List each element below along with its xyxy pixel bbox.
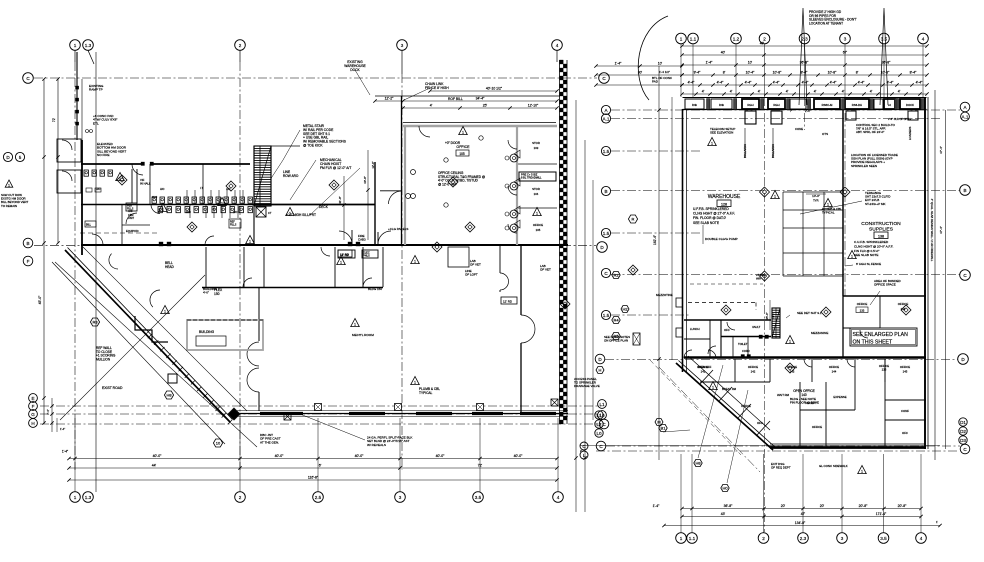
dim row top3 <box>680 61 928 67</box>
restroom stalls upper <box>187 190 243 204</box>
door arc mid <box>126 213 137 224</box>
svg-text:4': 4' <box>814 90 817 94</box>
note deck <box>286 205 329 217</box>
svg-text:4'-4": 4'-4" <box>887 81 895 85</box>
svg-text:PNLS: PNLS <box>363 254 370 258</box>
storefront frames <box>685 99 924 110</box>
svg-text:3.5: 3.5 <box>881 36 888 41</box>
svg-text:1: 1 <box>354 323 356 327</box>
south facade band <box>237 411 568 417</box>
svg-text:L: L <box>583 453 586 458</box>
dim rows top-left of right plan <box>594 62 683 87</box>
svg-text:SEE DET SHT 9.1: SEE DET SHT 9.1 <box>797 311 822 315</box>
svg-text:I.T: I.T <box>200 186 203 190</box>
svg-text:25': 25' <box>483 104 488 108</box>
restroom tiny labels <box>96 186 238 220</box>
svg-text:3: 3 <box>841 536 844 541</box>
svg-text:H2: H2 <box>622 307 628 312</box>
mezz vert dim <box>765 300 775 330</box>
lobby door arc <box>86 188 103 245</box>
svg-text:4'-4": 4'-4" <box>745 81 753 85</box>
per fills box <box>126 203 137 211</box>
note split face <box>300 414 413 447</box>
svg-text:ROW ARO: ROW ARO <box>283 174 299 178</box>
roof spike 2 <box>880 8 888 105</box>
svg-text:40'-0": 40'-0" <box>436 454 445 458</box>
svg-text:OFFICE: OFFICE <box>900 365 910 369</box>
svg-text:3: 3 <box>401 43 404 48</box>
svg-text:12'-10": 12'-10" <box>528 104 539 108</box>
grid C row <box>611 274 960 276</box>
restroom partition x203 <box>202 164 204 204</box>
note vert bar <box>260 433 281 444</box>
grid v 2 right plan <box>764 97 766 532</box>
outer diagonal sidewalk <box>52 262 225 444</box>
office west wall <box>375 96 402 245</box>
svg-text:BREAK RM: BREAK RM <box>722 387 737 391</box>
grid bubble 4 top <box>552 40 563 62</box>
svg-text:105: 105 <box>536 228 541 232</box>
svg-text:2.3: 2.3 <box>800 536 807 541</box>
svg-text:A.1: A.1 <box>962 114 969 119</box>
rp diag dash outer <box>650 360 760 472</box>
note exist road <box>102 386 123 390</box>
svg-text:H8: H8 <box>166 393 172 398</box>
supplies spec <box>854 240 893 257</box>
dim line vertical x44 <box>38 77 46 424</box>
svg-text:RGH: RGH <box>747 103 753 107</box>
svg-text:4: 4 <box>557 495 560 500</box>
svg-text:1: 1 <box>74 43 77 48</box>
restroom partition x132 <box>132 169 137 203</box>
warehouse label <box>708 194 741 207</box>
svg-text:1: 1 <box>221 202 223 206</box>
svg-text:4: 4 <box>920 536 923 541</box>
warning triangles right plan <box>708 138 867 474</box>
grid bubble stack right of left plan <box>598 400 609 429</box>
svg-text:RS6C-M: RS6C-M <box>822 103 833 107</box>
column footings below storefront <box>745 111 918 124</box>
svg-text:CONSTRUCTION: CONSTRUCTION <box>861 221 901 227</box>
svg-text:R4b: R4b <box>692 103 698 107</box>
svg-text:44': 44' <box>152 464 157 468</box>
svg-text:67': 67' <box>843 51 848 55</box>
svg-text:4': 4' <box>730 90 733 94</box>
svg-text:10'-8": 10'-8" <box>881 71 890 75</box>
grid A row <box>611 109 960 111</box>
office gray partition h2 <box>517 207 557 209</box>
north parapet mid <box>254 145 300 147</box>
note building sm <box>203 287 218 295</box>
svg-text:10': 10' <box>748 61 753 65</box>
svg-text:1'-4 1/2": 1'-4 1/2" <box>659 70 670 74</box>
ramp wall top-left <box>76 52 79 140</box>
svg-text:W/ REVEALS: W/ REVEALS <box>367 443 386 447</box>
upper office walls right <box>843 296 880 357</box>
svg-text:4'-0": 4'-0" <box>203 291 209 295</box>
svg-text:3.5: 3.5 <box>880 536 887 541</box>
svg-text:116'-8": 116'-8" <box>308 476 319 480</box>
door diamonds right plan <box>721 305 911 373</box>
svg-text:CT: CT <box>268 211 272 215</box>
svg-text:1.1: 1.1 <box>690 36 697 41</box>
svg-text:1.1: 1.1 <box>689 536 696 541</box>
mezzanine rack grid <box>783 192 843 276</box>
dim row top6 <box>680 90 928 96</box>
svg-text:8 BL TREADMILL: 8 BL TREADMILL <box>521 176 542 180</box>
svg-text:W/C: W/C <box>186 210 191 214</box>
rp bottom wall <box>770 444 926 448</box>
svg-text:FILLS: FILLS <box>230 224 237 227</box>
svg-text:DOCK: DOCK <box>906 103 914 107</box>
bo box <box>633 333 640 345</box>
svg-text:OFC: OFC <box>757 421 763 425</box>
cone2 <box>795 127 803 131</box>
speak leader <box>800 201 862 214</box>
svg-text:40'-0": 40'-0" <box>355 454 364 458</box>
svg-text:4'-4": 4'-4" <box>773 81 781 85</box>
bonded office south wall <box>843 295 926 297</box>
svg-text:HEAD: HEAD <box>165 265 175 269</box>
svg-text:20': 20' <box>820 504 825 508</box>
note bldg 150 <box>368 287 382 291</box>
svg-text:10'-4": 10'-4" <box>746 71 755 75</box>
leader lines left plan <box>270 70 430 215</box>
svg-text:LOCATION AT TENANT: LOCATION AT TENANT <box>809 21 843 25</box>
note mech chain <box>320 158 351 170</box>
svg-text:2: 2 <box>762 536 765 541</box>
svg-text:1.5: 1.5 <box>603 149 610 154</box>
grid row E dash <box>40 405 601 407</box>
svg-text:1'-4": 1'-4" <box>653 504 661 508</box>
svg-text:WAREHOUSE: WAREHOUSE <box>708 194 741 200</box>
svg-text:1: 1 <box>340 261 342 265</box>
svg-text:BUILDING: BUILDING <box>199 330 215 334</box>
dashed room line <box>80 229 160 233</box>
svg-text:OFFICE: OFFICE <box>741 404 751 408</box>
svg-text:CORR: CORR <box>742 349 750 353</box>
svg-text:OFFICE: OFFICE <box>748 365 758 369</box>
svg-text:R8: R8 <box>92 320 98 325</box>
svg-text:CLO: CLO <box>152 196 157 199</box>
svg-text:LOADERS: LOADERS <box>908 126 912 140</box>
mezz label <box>811 331 828 335</box>
svg-text:RECEPT: RECEPT <box>805 401 817 405</box>
svg-text:SPRINKLER SEEN: SPRINKLER SEEN <box>851 164 877 168</box>
restroom stalls lower <box>190 204 238 218</box>
svg-text:12'-2": 12'-2" <box>385 97 394 101</box>
warning triangles left plan <box>116 127 542 327</box>
office row labels <box>698 365 910 374</box>
svg-text:TYP.: TYP. <box>813 199 819 203</box>
svg-text:1: 1 <box>8 184 10 188</box>
svg-text:2.3: 2.3 <box>801 36 808 41</box>
note chain link <box>425 82 449 90</box>
svg-text:1.2: 1.2 <box>733 36 740 41</box>
rp sidewalk note <box>819 464 848 468</box>
svg-text:40'-0": 40'-0" <box>514 454 523 458</box>
counter note <box>879 364 889 371</box>
office gray north wall <box>403 123 557 127</box>
dim row top5 <box>680 81 928 87</box>
clr opng note <box>888 118 911 121</box>
note provide high <box>809 10 857 25</box>
svg-text:4'-4": 4'-4" <box>830 81 838 85</box>
wall x521 with niche <box>521 245 535 413</box>
svg-text:OF LOFT: OF LOFT <box>465 273 478 277</box>
office top wall rp <box>684 319 771 321</box>
facade column markers <box>315 404 484 411</box>
svg-text:2: 2 <box>239 495 242 500</box>
stair left plan <box>254 146 271 206</box>
note elevated door <box>97 142 127 157</box>
grid bubble stack bottom-right right plan <box>959 418 970 454</box>
svg-text:1.3: 1.3 <box>85 495 92 500</box>
gray room building <box>187 320 263 350</box>
svg-text:SEE SLAB NOTE: SEE SLAB NOTE <box>854 253 878 257</box>
grid v 23 right plan <box>804 97 806 130</box>
right wall right plan <box>925 97 928 449</box>
bollard marks <box>743 128 775 158</box>
boxes below corridor <box>338 250 378 258</box>
svg-text:1: 1 <box>861 470 863 474</box>
facade diamond <box>228 408 240 420</box>
svg-text:3.5: 3.5 <box>475 495 482 500</box>
diamond markers grid <box>760 187 851 281</box>
svg-text:OTS: OTS <box>822 132 828 136</box>
svg-text:STOR: STOR <box>532 187 540 191</box>
restroom partition x255 <box>253 206 255 245</box>
svg-text:10'-8": 10'-8" <box>773 71 782 75</box>
note mke <box>0 0 1 1</box>
xbox mid <box>284 413 291 420</box>
svg-text:8'-4": 8'-4" <box>910 71 918 75</box>
svg-text:ROF BILL: ROF BILL <box>448 97 463 101</box>
office spec text <box>438 171 485 186</box>
south band bottom wall <box>202 287 383 289</box>
rp hex keynotes <box>621 306 729 492</box>
rp main diagonal wall <box>676 361 776 451</box>
svg-text:L0: L0 <box>596 431 602 436</box>
svg-text:R: R <box>632 217 635 222</box>
svg-text:2.5: 2.5 <box>315 495 322 500</box>
svg-text:M: M <box>657 420 660 425</box>
restroom mid wall <box>81 204 255 206</box>
svg-text:MEZZANINE: MEZZANINE <box>811 331 828 335</box>
warehouse spec <box>693 207 735 225</box>
svg-text:TYPICAL: TYPICAL <box>419 391 433 395</box>
office top dim row a <box>428 87 558 93</box>
grid bubbles top right plan <box>676 33 929 44</box>
note fire cab <box>358 234 366 242</box>
grid bubbles B left <box>23 238 33 266</box>
svg-text:10'-8": 10'-8" <box>828 71 837 75</box>
hex keynotes left plan <box>90 215 637 447</box>
office corridor wall <box>684 350 926 358</box>
deck wall <box>252 204 375 206</box>
fence note <box>845 262 881 266</box>
note conc pad <box>93 114 117 125</box>
rp exit note <box>771 462 791 470</box>
dim line vertical x58 <box>52 77 60 244</box>
inner diagonal line <box>83 247 247 411</box>
grid bubble C left <box>23 73 34 84</box>
svg-text:WAIT RM: WAIT RM <box>777 393 790 397</box>
grid B row <box>611 190 960 192</box>
svg-text:L2: L2 <box>596 422 602 427</box>
matchline hatch band <box>560 60 568 424</box>
dim stub left bottom <box>46 398 65 432</box>
svg-text:1: 1 <box>414 381 416 385</box>
grid bubble D left <box>595 354 605 373</box>
svg-text:105: 105 <box>459 152 465 156</box>
svg-text:4': 4' <box>758 90 761 94</box>
svg-text:162'-4": 162'-4" <box>653 235 657 245</box>
svg-text:CAB3: CAB3 <box>358 238 366 242</box>
dim 47-4 upper <box>939 146 943 234</box>
open office label <box>790 389 819 405</box>
construction supplies label <box>861 221 901 239</box>
svg-text:SEE SLAB NOTE: SEE SLAB NOTE <box>693 221 720 225</box>
note top-left dims <box>659 70 670 74</box>
svg-text:CONF: CONF <box>901 409 909 413</box>
svg-text:4': 4' <box>842 90 845 94</box>
vif hall text <box>140 178 151 185</box>
dim row top4 <box>680 71 928 77</box>
office top dim row c <box>401 104 558 110</box>
note lab vent <box>470 259 551 272</box>
grid bubble C right <box>599 73 610 84</box>
svg-text:BILL: BILL <box>86 224 92 227</box>
right plan top wall <box>683 98 927 110</box>
svg-text:E: E <box>31 396 34 401</box>
svg-text:1: 1 <box>462 131 464 135</box>
xbox below stair <box>256 207 272 217</box>
dim vertical x368 <box>363 150 375 240</box>
svg-text:4: 4 <box>556 43 559 48</box>
note existing ramp <box>89 84 104 92</box>
dim row top1 <box>680 42 928 48</box>
svg-text:1: 1 <box>712 386 714 390</box>
note flex 150 <box>214 288 223 296</box>
svg-text:D1: D1 <box>960 420 966 425</box>
svg-text:H/C: H/C <box>96 187 101 191</box>
see enlarged box <box>850 328 917 346</box>
svg-text:1: 1 <box>827 203 829 207</box>
west wall <box>81 79 83 255</box>
dim text 1-4 <box>62 450 68 454</box>
svg-text:6': 6' <box>319 464 322 468</box>
warehouse divider wall <box>842 110 844 296</box>
dim vertical x659 <box>653 66 661 460</box>
svg-text:40'-0": 40'-0" <box>363 176 367 184</box>
restroom fixtures lower row <box>158 207 252 213</box>
office label <box>456 145 470 156</box>
note sk doors <box>352 333 374 337</box>
rp dim row 2 <box>680 512 922 518</box>
matchline dim lines <box>574 100 593 512</box>
svg-text:MULLION: MULLION <box>96 357 111 361</box>
mezzotine label <box>656 293 673 297</box>
grid bubble stack bottom-left <box>29 394 38 428</box>
cone note <box>790 109 828 136</box>
svg-text:1: 1 <box>711 142 713 146</box>
svg-text:LUNCH: LUNCH <box>690 327 700 331</box>
diagonal pilaster <box>168 374 177 383</box>
svg-text:D2: D2 <box>960 429 966 434</box>
office gray partition v <box>516 126 518 245</box>
note existing warehouse dock <box>344 60 366 72</box>
svg-text:3: 3 <box>399 495 402 500</box>
svg-text:4'-4": 4'-4" <box>916 81 924 85</box>
svg-text:OPEN OFF: OPEN OFF <box>697 365 712 369</box>
svg-text:1: 1 <box>414 260 416 264</box>
svg-text:CONE: CONE <box>795 127 803 131</box>
svg-text:FIN FLR @ 0.5'-0": FIN FLR @ 0.5'-0" <box>854 249 879 253</box>
svg-text:144: 144 <box>832 370 837 374</box>
north wall left section <box>81 163 250 165</box>
svg-text:4" QUAL. SLAB DESIGN WALL / 2: 4" QUAL. SLAB DESIGN WALL / 2 HR FIREWAL… <box>930 199 934 262</box>
grid line 1 vertical <box>74 62 76 470</box>
hex keynotes matchline <box>612 271 620 339</box>
svg-text:OF VET: OF VET <box>540 268 551 272</box>
roof spike 1 <box>799 8 807 105</box>
grid bubble stack bottom-left right plan <box>595 411 606 451</box>
svg-text:47'-4": 47'-4" <box>939 226 943 234</box>
svg-text:H: H <box>599 368 602 373</box>
svg-text:SEE ELEVATION: SEE ELEVATION <box>710 131 733 135</box>
office keynote dots <box>505 156 509 230</box>
west canopy line <box>95 52 97 492</box>
svg-text:R4: R4 <box>613 318 619 323</box>
licensed note <box>851 153 898 168</box>
office upper partitions <box>684 320 771 357</box>
grid bubble column right of right plan <box>958 102 971 364</box>
grid line 3 vertical <box>401 74 403 470</box>
diamond mid2 <box>187 222 197 232</box>
rp bottom subline <box>580 442 958 459</box>
corridor jambs <box>159 242 360 246</box>
svg-text:+0: +0 <box>888 103 892 107</box>
svg-text:B: B <box>604 189 607 194</box>
svg-text:EQUIP150: EQUIP150 <box>126 229 139 233</box>
svg-text:4'-4": 4'-4" <box>717 81 725 85</box>
grid bubble 3 top <box>397 40 408 74</box>
office stor labels <box>532 141 543 232</box>
svg-text:DOCK: DOCK <box>350 68 360 72</box>
office boxed label <box>519 172 556 181</box>
office ceiling marks <box>444 136 483 207</box>
svg-text:RAMP TP: RAMP TP <box>89 88 103 92</box>
svg-text:OF REQ DEPT: OF REQ DEPT <box>771 466 791 470</box>
svg-text:4': 4' <box>702 90 705 94</box>
svg-text:134'-8": 134'-8" <box>795 521 806 525</box>
grid bubbles 1/1.3 top-left plan <box>70 40 94 64</box>
svg-text:47': 47' <box>801 512 806 516</box>
high roof note <box>0 0 1 1</box>
note metal stair <box>303 124 347 148</box>
note bell head <box>165 261 175 269</box>
mezzanine leader <box>0 0 1 1</box>
svg-text:12' RD: 12' RD <box>340 252 350 256</box>
stair right plan <box>772 308 780 338</box>
svg-text:BLDG 150: BLDG 150 <box>368 287 382 291</box>
svg-text:1: 1 <box>680 36 683 41</box>
office door arcs <box>419 126 517 233</box>
svg-text:VAULT: VAULT <box>752 325 761 329</box>
note see door <box>604 335 630 343</box>
loaders note <box>908 126 912 140</box>
